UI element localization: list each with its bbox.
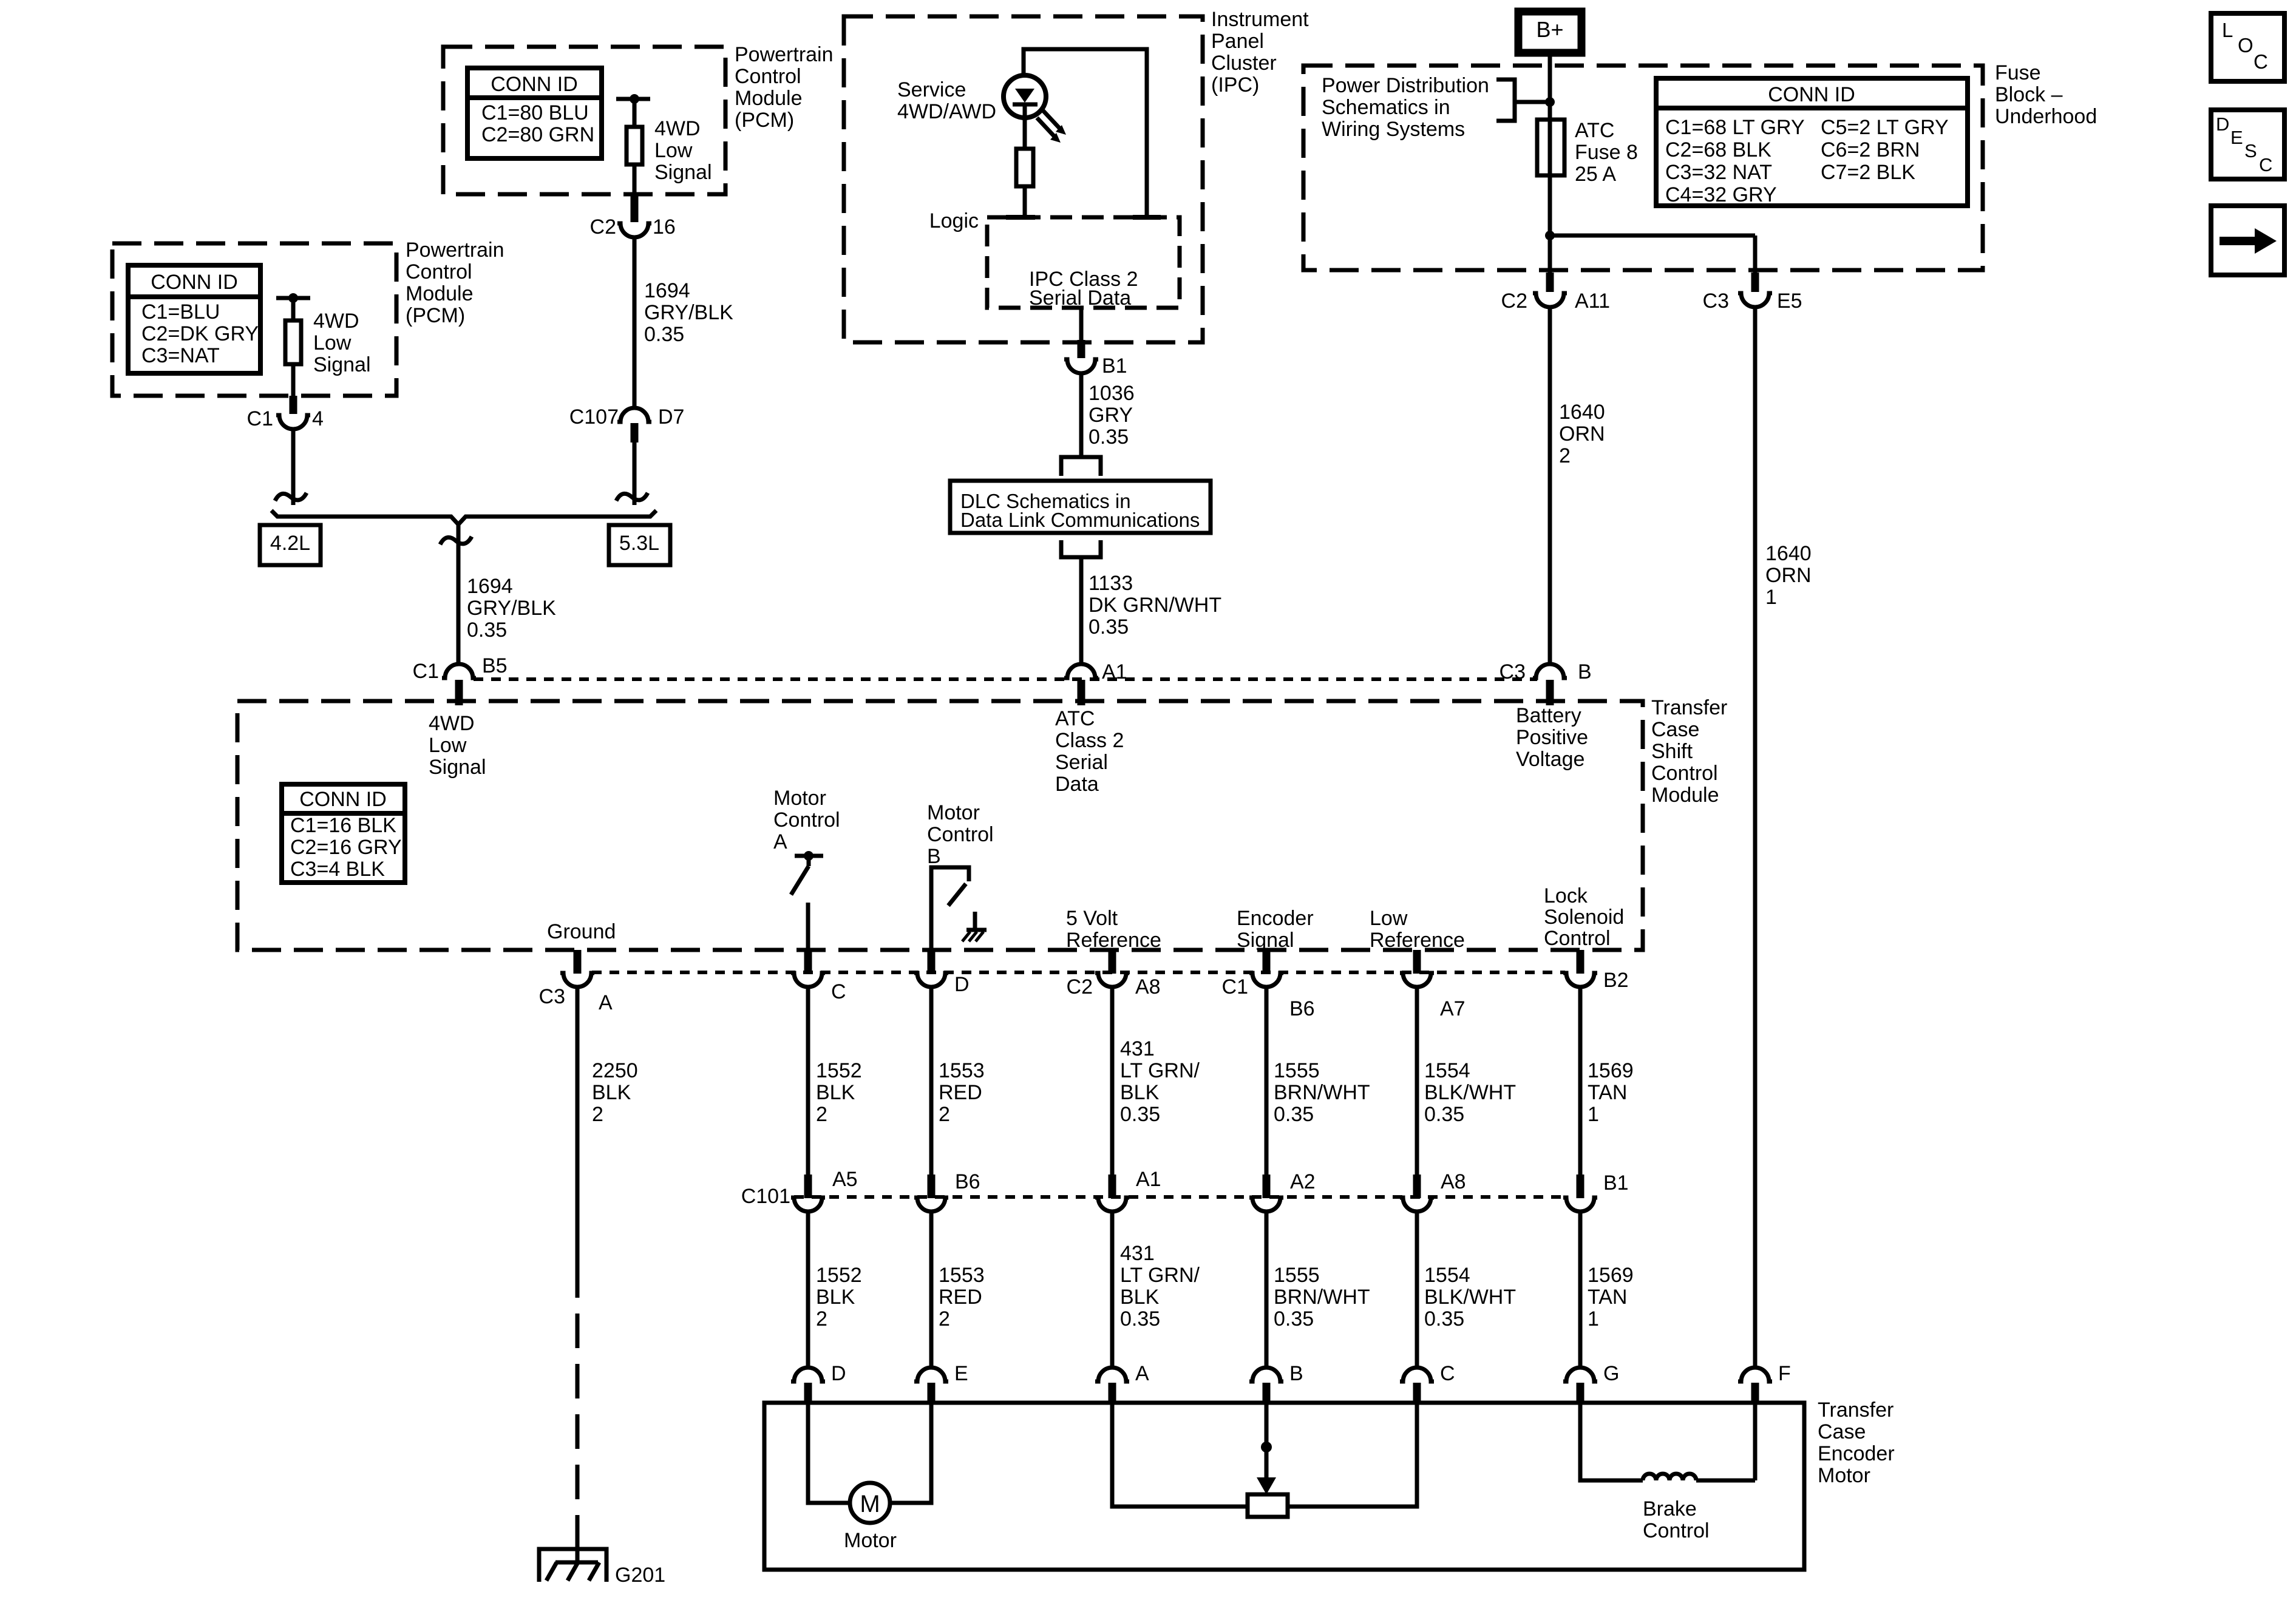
svg-text:Control: Control — [1544, 927, 1611, 950]
svg-text:Signal: Signal — [429, 756, 486, 779]
svg-text:1640: 1640 — [1559, 401, 1605, 424]
svg-text:A11: A11 — [1575, 290, 1610, 313]
svg-text:431: 431 — [1120, 1037, 1155, 1060]
svg-text:Fuse: Fuse — [1995, 61, 2041, 84]
svg-text:Schematics in: Schematics in — [1322, 96, 1450, 119]
svg-text:0.35: 0.35 — [1424, 1307, 1464, 1331]
svg-text:C2=16 GRY: C2=16 GRY — [290, 836, 402, 859]
svg-text:4.2L: 4.2L — [270, 532, 310, 555]
svg-text:Positive: Positive — [1516, 726, 1588, 749]
svg-text:Low: Low — [1370, 907, 1408, 930]
svg-text:C3=NAT: C3=NAT — [141, 344, 220, 367]
svg-text:M: M — [860, 1491, 880, 1517]
svg-text:Case: Case — [1818, 1420, 1866, 1443]
svg-text:C: C — [1440, 1362, 1455, 1385]
svg-text:Logic: Logic — [929, 209, 979, 232]
svg-text:C: C — [831, 980, 846, 1003]
svg-text:Low: Low — [654, 139, 693, 162]
svg-text:Voltage: Voltage — [1516, 748, 1584, 771]
svg-text:DK GRN/WHT: DK GRN/WHT — [1089, 594, 1221, 617]
svg-text:B: B — [1289, 1362, 1303, 1385]
svg-text:CONN ID: CONN ID — [151, 271, 238, 294]
svg-text:C1: C1 — [247, 407, 273, 430]
svg-text:D7: D7 — [658, 405, 684, 429]
svg-text:Control: Control — [406, 260, 472, 283]
svg-text:Module: Module — [406, 282, 474, 305]
svg-text:4WD/AWD: 4WD/AWD — [897, 100, 996, 123]
svg-text:Encoder: Encoder — [1237, 907, 1314, 930]
svg-text:A1: A1 — [1102, 660, 1127, 683]
svg-text:BLK: BLK — [592, 1081, 631, 1104]
svg-text:Signal: Signal — [654, 161, 712, 184]
svg-text:RED: RED — [939, 1081, 982, 1104]
svg-text:Serial Data: Serial Data — [1029, 286, 1131, 310]
svg-text:Low: Low — [429, 734, 467, 757]
svg-text:CONN ID: CONN ID — [299, 788, 387, 811]
svg-text:D: D — [954, 973, 970, 996]
svg-text:Motor: Motor — [773, 787, 826, 810]
svg-text:L: L — [2222, 19, 2233, 41]
svg-text:A: A — [773, 830, 787, 853]
svg-text:BLK/WHT: BLK/WHT — [1424, 1286, 1516, 1309]
svg-text:16: 16 — [653, 215, 676, 239]
svg-text:Shift: Shift — [1651, 740, 1693, 763]
svg-text:A5: A5 — [832, 1168, 858, 1191]
svg-text:ATC: ATC — [1055, 707, 1095, 730]
svg-text:C: C — [2259, 154, 2272, 175]
svg-text:C1=80 BLU: C1=80 BLU — [481, 101, 589, 124]
svg-text:Transfer: Transfer — [1818, 1398, 1894, 1422]
svg-text:Wiring Systems: Wiring Systems — [1322, 118, 1465, 141]
svg-text:1: 1 — [1588, 1307, 1599, 1331]
svg-text:25 A: 25 A — [1575, 163, 1616, 186]
svg-text:C: C — [2254, 50, 2268, 73]
svg-text:4WD: 4WD — [313, 310, 359, 333]
svg-text:1553: 1553 — [939, 1059, 985, 1082]
svg-text:E: E — [2230, 127, 2243, 148]
svg-text:2250: 2250 — [592, 1059, 638, 1082]
svg-text:GRY/BLK: GRY/BLK — [467, 597, 556, 620]
svg-text:BLK: BLK — [1120, 1286, 1160, 1309]
svg-text:LT GRN/: LT GRN/ — [1120, 1264, 1200, 1287]
svg-text:Data: Data — [1055, 773, 1099, 796]
svg-text:E5: E5 — [1777, 290, 1802, 313]
svg-text:1640: 1640 — [1765, 542, 1812, 565]
svg-text:Class 2: Class 2 — [1055, 729, 1124, 752]
svg-text:C7=2 BLK: C7=2 BLK — [1821, 161, 1915, 184]
svg-text:CONN ID: CONN ID — [1768, 83, 1855, 106]
svg-text:GRY: GRY — [1089, 404, 1133, 427]
svg-text:Underhood: Underhood — [1995, 105, 2097, 128]
svg-text:G: G — [1603, 1362, 1619, 1385]
svg-text:Ground: Ground — [547, 920, 616, 943]
svg-text:Reference: Reference — [1066, 929, 1161, 952]
svg-text:1554: 1554 — [1424, 1264, 1470, 1287]
svg-text:0.35: 0.35 — [1089, 615, 1129, 639]
svg-text:0.35: 0.35 — [1089, 425, 1129, 449]
svg-text:Case: Case — [1651, 718, 1699, 741]
svg-text:C6=2 BRN: C6=2 BRN — [1821, 138, 1920, 161]
svg-text:0.35: 0.35 — [1274, 1307, 1314, 1331]
svg-text:Lock: Lock — [1544, 884, 1588, 907]
svg-text:Block –: Block – — [1995, 83, 2063, 106]
svg-text:Transfer: Transfer — [1651, 696, 1727, 719]
svg-text:B: B — [1578, 660, 1592, 683]
svg-text:1555: 1555 — [1274, 1059, 1320, 1082]
svg-text:1: 1 — [1588, 1103, 1599, 1126]
svg-text:B2: B2 — [1603, 969, 1629, 992]
svg-text:Brake: Brake — [1643, 1497, 1697, 1520]
svg-text:A8: A8 — [1441, 1170, 1466, 1193]
svg-text:1133: 1133 — [1089, 572, 1133, 595]
svg-text:C1: C1 — [1222, 975, 1248, 998]
svg-text:2: 2 — [939, 1307, 950, 1331]
svg-text:ORN: ORN — [1765, 564, 1812, 587]
svg-text:A8: A8 — [1135, 975, 1161, 998]
svg-text:Signal: Signal — [313, 353, 371, 376]
svg-text:O: O — [2238, 34, 2254, 56]
svg-text:Powertrain: Powertrain — [406, 239, 504, 262]
svg-text:1554: 1554 — [1424, 1059, 1470, 1082]
svg-text:ORN: ORN — [1559, 422, 1605, 446]
svg-text:BRN/WHT: BRN/WHT — [1274, 1286, 1370, 1309]
svg-text:S: S — [2244, 140, 2257, 161]
svg-text:C3: C3 — [1500, 660, 1526, 683]
svg-text:D: D — [831, 1362, 846, 1385]
svg-text:Data Link Communications: Data Link Communications — [960, 509, 1200, 531]
svg-text:Cluster: Cluster — [1211, 52, 1277, 75]
svg-text:B1: B1 — [1603, 1171, 1629, 1195]
svg-text:(PCM): (PCM) — [735, 109, 794, 132]
svg-text:C2: C2 — [1501, 290, 1527, 313]
svg-text:BLK: BLK — [816, 1286, 855, 1309]
svg-text:2: 2 — [592, 1103, 603, 1126]
svg-text:Control: Control — [927, 823, 994, 846]
svg-text:0.35: 0.35 — [467, 619, 507, 642]
svg-text:1569: 1569 — [1588, 1264, 1634, 1287]
svg-text:Panel: Panel — [1211, 30, 1264, 53]
svg-text:ATC: ATC — [1575, 119, 1614, 142]
svg-text:4WD: 4WD — [429, 712, 475, 735]
svg-text:Control: Control — [735, 65, 801, 88]
svg-text:0.35: 0.35 — [1120, 1103, 1160, 1126]
svg-text:Module: Module — [735, 87, 803, 110]
svg-text:1553: 1553 — [939, 1264, 985, 1287]
svg-text:Power Distribution: Power Distribution — [1322, 74, 1489, 97]
svg-text:431: 431 — [1120, 1242, 1155, 1265]
svg-text:1555: 1555 — [1274, 1264, 1320, 1287]
svg-text:TAN: TAN — [1588, 1081, 1627, 1104]
svg-text:B1: B1 — [1102, 354, 1127, 378]
svg-text:0.35: 0.35 — [644, 323, 684, 346]
svg-text:A7: A7 — [1440, 997, 1466, 1020]
svg-text:Powertrain: Powertrain — [735, 43, 834, 66]
svg-text:Motor: Motor — [844, 1529, 897, 1552]
svg-text:C5=2 LT GRY: C5=2 LT GRY — [1821, 116, 1949, 139]
svg-text:LT GRN/: LT GRN/ — [1120, 1059, 1200, 1082]
svg-text:CONN ID: CONN ID — [491, 73, 578, 96]
svg-text:B5: B5 — [482, 654, 508, 677]
svg-text:1: 1 — [1765, 586, 1777, 609]
svg-text:4: 4 — [312, 407, 324, 430]
svg-text:5 Volt: 5 Volt — [1066, 907, 1118, 930]
svg-text:B6: B6 — [955, 1170, 980, 1193]
svg-text:C101: C101 — [741, 1185, 790, 1208]
svg-text:Reference: Reference — [1370, 929, 1465, 952]
svg-text:C1=68 LT GRY: C1=68 LT GRY — [1665, 116, 1805, 139]
svg-text:BRN/WHT: BRN/WHT — [1274, 1081, 1370, 1104]
svg-text:A: A — [599, 991, 613, 1014]
svg-text:Motor: Motor — [1818, 1464, 1870, 1487]
svg-text:C3=32 NAT: C3=32 NAT — [1665, 161, 1772, 184]
svg-text:C1=16 BLK: C1=16 BLK — [290, 814, 396, 837]
svg-text:Control: Control — [1643, 1519, 1710, 1542]
svg-text:1552: 1552 — [816, 1264, 862, 1287]
svg-text:0.35: 0.35 — [1120, 1307, 1160, 1331]
svg-text:B+: B+ — [1536, 17, 1563, 42]
svg-text:C1: C1 — [413, 660, 439, 683]
svg-text:1694: 1694 — [644, 279, 690, 302]
svg-text:BLK: BLK — [816, 1081, 855, 1104]
svg-text:1694: 1694 — [467, 575, 513, 598]
svg-text:C2=68 BLK: C2=68 BLK — [1665, 138, 1771, 161]
svg-text:A2: A2 — [1290, 1170, 1316, 1193]
svg-text:2: 2 — [816, 1307, 827, 1331]
svg-text:B6: B6 — [1289, 997, 1315, 1020]
svg-text:C3: C3 — [539, 985, 565, 1008]
svg-text:Instrument: Instrument — [1211, 8, 1309, 31]
svg-text:C4=32 GRY: C4=32 GRY — [1665, 183, 1777, 206]
svg-text:BLK: BLK — [1120, 1081, 1160, 1104]
svg-text:TAN: TAN — [1588, 1286, 1627, 1309]
svg-text:B: B — [927, 845, 941, 868]
svg-text:0.35: 0.35 — [1274, 1103, 1314, 1126]
svg-text:Motor: Motor — [927, 801, 980, 824]
svg-text:GRY/BLK: GRY/BLK — [644, 301, 733, 324]
svg-text:0.35: 0.35 — [1424, 1103, 1464, 1126]
svg-text:Serial: Serial — [1055, 751, 1108, 774]
svg-text:C1=BLU: C1=BLU — [141, 300, 220, 324]
svg-text:1036: 1036 — [1089, 382, 1135, 405]
svg-text:C2: C2 — [590, 215, 616, 239]
svg-text:RED: RED — [939, 1286, 982, 1309]
svg-text:Fuse 8: Fuse 8 — [1575, 141, 1638, 164]
svg-text:C107: C107 — [569, 405, 619, 429]
svg-text:5.3L: 5.3L — [619, 532, 659, 555]
svg-text:(IPC): (IPC) — [1211, 73, 1259, 97]
svg-text:Control: Control — [773, 808, 840, 832]
svg-text:F: F — [1778, 1362, 1791, 1385]
svg-text:Solenoid: Solenoid — [1544, 906, 1624, 929]
svg-text:D: D — [2216, 114, 2229, 135]
svg-text:Service: Service — [897, 78, 966, 101]
svg-text:E: E — [954, 1362, 968, 1385]
svg-text:2: 2 — [1559, 444, 1571, 467]
svg-text:2: 2 — [939, 1103, 950, 1126]
svg-text:A: A — [1135, 1362, 1149, 1385]
svg-text:BLK/WHT: BLK/WHT — [1424, 1081, 1516, 1104]
svg-text:A1: A1 — [1136, 1168, 1161, 1191]
svg-text:Encoder: Encoder — [1818, 1442, 1895, 1465]
svg-text:Module: Module — [1651, 784, 1719, 807]
svg-text:G201: G201 — [615, 1564, 665, 1587]
svg-text:C3=4 BLK: C3=4 BLK — [290, 858, 385, 881]
svg-text:C3: C3 — [1703, 290, 1729, 313]
svg-text:4WD: 4WD — [654, 117, 701, 140]
svg-text:Battery: Battery — [1516, 704, 1581, 727]
svg-text:Signal: Signal — [1237, 929, 1294, 952]
svg-text:C2=DK GRY: C2=DK GRY — [141, 322, 259, 345]
svg-text:Low: Low — [313, 331, 352, 354]
svg-text:(PCM): (PCM) — [406, 304, 465, 327]
svg-text:2: 2 — [816, 1103, 827, 1126]
svg-text:Control: Control — [1651, 762, 1718, 785]
svg-text:C2: C2 — [1067, 975, 1093, 998]
svg-text:C2=80 GRN: C2=80 GRN — [481, 123, 594, 146]
svg-text:1552: 1552 — [816, 1059, 862, 1082]
svg-text:1569: 1569 — [1588, 1059, 1634, 1082]
